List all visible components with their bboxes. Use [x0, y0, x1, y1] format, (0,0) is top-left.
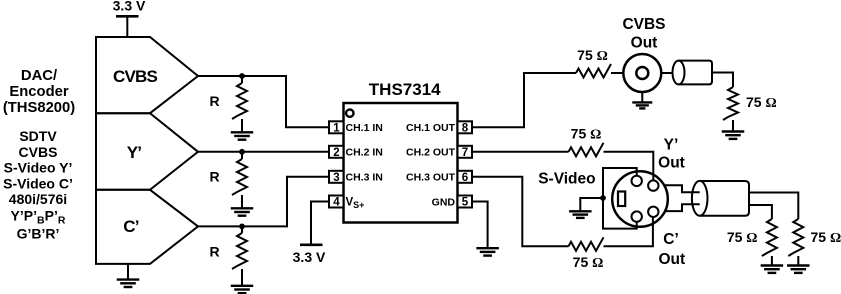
op-amp IC U1 THS7314 body	[344, 80, 458, 222]
svg-text:VS+: VS+	[346, 196, 365, 210]
wire resistor to S-Video Y pin	[604, 152, 654, 181]
resistor 75ohm (C&#39; termination)	[727, 219, 777, 266]
svg-text:1: 1	[333, 123, 340, 135]
wire cable to termination	[712, 73, 733, 88]
svg-text:R: R	[209, 93, 219, 109]
ground (DAC bottom)	[117, 264, 140, 287]
svg-text:S-Video Y’: S-Video Y’	[4, 160, 73, 176]
ground (S-Video shield)	[569, 198, 603, 218]
ground (R C&#39;)	[231, 286, 254, 293]
ground (pin5)	[476, 248, 499, 255]
DIN pin (Y&#39; top-right)	[648, 180, 658, 190]
svg-text:75 Ω: 75 Ω	[727, 229, 758, 246]
label C&#39; Out	[658, 231, 685, 268]
pin-1 indicator	[346, 110, 353, 117]
svg-text:CH.1 OUT: CH.1 OUT	[406, 122, 456, 134]
DAC buffer Y&#39;	[96, 113, 198, 190]
svg-text:480i/576i: 480i/576i	[9, 191, 67, 207]
svg-text:Y’: Y’	[127, 143, 142, 162]
svg-text:3: 3	[333, 172, 339, 184]
pin 5 box	[458, 196, 473, 209]
resistor 75ohm (Y&#39; termination)	[788, 219, 841, 266]
svg-text:DAC/: DAC/	[21, 68, 57, 84]
power rail 3.3V (pin4)	[293, 245, 326, 265]
svg-text:CVBS: CVBS	[19, 144, 58, 160]
connector CVBS Out RCA jack	[622, 16, 665, 92]
wire pin4 to 3.3V	[311, 202, 329, 245]
wire CVBS out to pin1	[198, 76, 329, 127]
pin 8 box	[458, 121, 473, 134]
svg-text:75 Ω: 75 Ω	[573, 254, 604, 271]
svg-text:75 Ω: 75 Ω	[746, 94, 777, 111]
svg-text:75 Ω: 75 Ω	[571, 126, 602, 143]
svg-text:S-Video C’: S-Video C’	[3, 175, 73, 191]
svg-text:Encoder: Encoder	[9, 84, 68, 100]
svg-text:SDTV: SDTV	[19, 128, 57, 144]
node dot CVBS/R	[239, 73, 245, 79]
pin 4 box	[329, 196, 344, 209]
DAC buffer C&#39;	[96, 190, 198, 264]
wire pin5 to ground	[472, 202, 488, 249]
wire resistor to S-Video C pin	[604, 217, 653, 246]
svg-text:CH.3 OUT: CH.3 OUT	[406, 172, 456, 184]
svg-text:Y’P’BP’R: Y’P’BP’R	[11, 207, 66, 226]
svg-text:7: 7	[462, 147, 468, 159]
svg-text:75 Ω: 75 Ω	[811, 229, 841, 246]
pin 2 box	[329, 146, 344, 159]
svg-text:Y’: Y’	[664, 136, 679, 153]
svg-text:CH.3 IN: CH.3 IN	[346, 172, 383, 184]
wire Y&#39; to termination	[749, 193, 798, 220]
S-Video DIN circle	[612, 171, 668, 227]
ground (C&#39; termination)	[761, 266, 784, 273]
node dot Y&#39;/R	[239, 149, 245, 155]
svg-text:R: R	[209, 169, 219, 185]
svg-text:G’B’R’: G’B’R’	[17, 226, 60, 242]
resistor 75ohm (CVBS series)	[576, 47, 611, 78]
ground (R Y&#39;)	[231, 208, 254, 215]
resistor 75ohm (Y&#39; series)	[569, 126, 604, 157]
svg-text:C’: C’	[123, 217, 138, 236]
coax cable (S-Video)	[692, 181, 749, 216]
power rail 3.3V (top)	[113, 0, 146, 37]
coax cable (CVBS)	[661, 61, 712, 85]
svg-text:CH.2 OUT: CH.2 OUT	[406, 147, 456, 159]
svg-text:3.3 V: 3.3 V	[113, 0, 146, 14]
resistor R (Y&#39; load)	[209, 152, 247, 209]
DIN key	[618, 192, 625, 207]
ground (RCA shield)	[632, 92, 652, 108]
resistor R (CVBS load)	[209, 76, 247, 132]
svg-text:(THS8200): (THS8200)	[3, 100, 75, 116]
svg-text:8: 8	[462, 123, 469, 135]
svg-text:CVBS: CVBS	[622, 16, 665, 33]
ground (Y&#39; termination)	[787, 266, 810, 273]
wire pin8 to series resistor	[472, 73, 576, 127]
ground (R CVBS)	[231, 132, 254, 139]
label DAC/Encoder (THS8200)	[3, 68, 75, 116]
svg-text:4: 4	[333, 197, 340, 209]
svg-text:75 Ω: 75 Ω	[577, 47, 608, 64]
DIN pin (gnd bottom-left)	[632, 211, 642, 221]
svg-text:2: 2	[333, 147, 339, 159]
S-Video connector shell box	[603, 168, 637, 229]
DIN pin (C&#39; bottom-right)	[648, 207, 658, 217]
pin 1 box	[329, 121, 344, 134]
ground (CVBS termination)	[722, 132, 745, 139]
svg-text:S-Video: S-Video	[538, 170, 595, 187]
wire C&#39; out to pin3	[198, 177, 329, 227]
DIN pin (gnd top-left)	[632, 176, 642, 186]
pin 6 box	[458, 171, 473, 184]
svg-text:GND: GND	[432, 196, 456, 208]
svg-text:CVBS: CVBS	[113, 67, 157, 86]
DAC buffer CVBS	[96, 37, 198, 113]
resistor 75ohm (C&#39; series)	[569, 237, 604, 270]
resistor R (C&#39; load)	[209, 226, 247, 285]
pin 7 box	[458, 146, 473, 159]
svg-text:Out: Out	[631, 34, 658, 51]
svg-text:6: 6	[462, 172, 468, 184]
svg-text:CH.2 IN: CH.2 IN	[346, 147, 383, 159]
wire pin6 to series resistor	[472, 177, 569, 247]
wire Y&#39; out to pin2	[198, 151, 329, 153]
svg-text:R: R	[209, 243, 219, 259]
svg-text:C’: C’	[663, 231, 679, 248]
node dot C&#39;/R	[239, 224, 245, 230]
svg-text:CH.1 IN: CH.1 IN	[346, 122, 383, 134]
label Y&#39; Out	[658, 136, 685, 171]
svg-text:Out: Out	[658, 251, 685, 268]
node dot (shield)	[600, 195, 606, 201]
S-Video plug stub	[664, 185, 700, 211]
label signal list	[3, 128, 73, 242]
svg-text:5: 5	[462, 197, 469, 209]
wire resistor to RCA	[611, 72, 623, 74]
svg-text:Out: Out	[658, 155, 685, 172]
wire C&#39; to termination	[749, 205, 772, 219]
resistor 75ohm (CVBS termination)	[723, 87, 777, 132]
svg-text:3.3 V: 3.3 V	[293, 249, 326, 265]
svg-text:THS7314: THS7314	[369, 80, 441, 99]
wire pin7 to series resistor	[472, 151, 569, 153]
pin 3 box	[329, 171, 344, 184]
